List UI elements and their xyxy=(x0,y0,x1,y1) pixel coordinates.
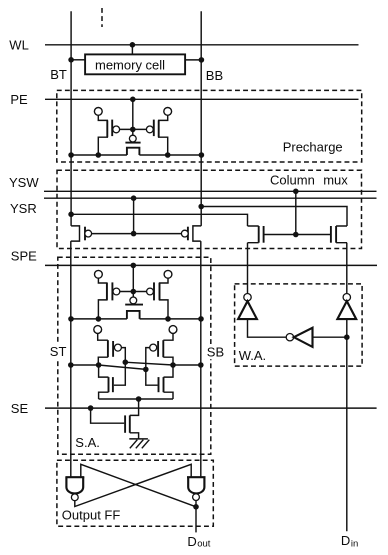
inverter W.A. middle xyxy=(286,328,312,347)
wire node ST segment xyxy=(71,364,99,366)
node PE to precharge gates junction xyxy=(130,97,136,103)
wire precharge rail xyxy=(71,154,201,156)
node SA rail left drain junction xyxy=(96,316,102,322)
power VDD terminal precharge right xyxy=(164,108,172,116)
wire read mux gate line xyxy=(91,233,181,235)
transistor precharge equalize PMOS xyxy=(125,135,140,155)
node SE junction xyxy=(88,405,94,411)
node read mux gate junction xyxy=(131,231,137,237)
transistor SA latch NMOS left xyxy=(99,365,113,399)
wire memory cell right terminal to BB xyxy=(185,59,201,61)
wire memory cell left terminal to BT xyxy=(71,59,85,61)
wire SE gate feed xyxy=(91,408,125,423)
transistor SA precharge PMOS right xyxy=(147,278,168,319)
inverter W.A. right driver xyxy=(337,294,356,320)
power VDD terminal SA latch right xyxy=(169,326,177,334)
wire SA source rail xyxy=(99,398,173,400)
svg-text:Output FF: Output FF xyxy=(62,507,121,522)
transistor SA equalize PMOS xyxy=(125,297,143,319)
svg-text:WL: WL xyxy=(9,37,29,52)
wire YSR gate feed xyxy=(133,198,135,233)
wire node SB segment xyxy=(173,364,201,366)
precharge block dashed box xyxy=(57,90,362,162)
label ST xyxy=(48,344,68,359)
node SA rail BB junction xyxy=(198,316,204,322)
wire write amp right feed xyxy=(346,243,348,294)
wire SA latch right gate vertical xyxy=(146,348,158,386)
svg-text:SE: SE xyxy=(11,401,29,416)
label SE xyxy=(11,401,29,416)
inverter W.A. left driver xyxy=(238,294,257,320)
svg-text:mux: mux xyxy=(323,173,348,188)
transistor write mux NMOS right xyxy=(331,226,347,243)
svg-text:YSR: YSR xyxy=(10,201,37,216)
wire YSW column select write xyxy=(44,190,377,192)
label memory cell xyxy=(95,57,165,72)
power VDD terminal SA precharge right xyxy=(164,270,172,278)
wire cross couple diagonal left gate to right drain xyxy=(125,362,173,365)
wire SA rail xyxy=(71,318,201,320)
gate NAND left xyxy=(65,477,84,500)
wire Dout line xyxy=(195,507,197,533)
label S.A. xyxy=(75,435,100,450)
wire WL word line xyxy=(45,44,359,46)
wire precharge gate feed xyxy=(132,99,134,135)
gate NAND right xyxy=(187,477,206,500)
sense amp dashed box xyxy=(58,257,211,454)
wire BT bit line lower xyxy=(70,241,72,477)
power VDD terminal precharge left xyxy=(94,108,102,116)
wire left NAND output cross to right input xyxy=(75,464,191,506)
wire SPE gate feed xyxy=(132,265,134,297)
svg-text:out: out xyxy=(197,539,211,550)
node SA precharge gate junction xyxy=(131,289,137,295)
svg-text:Column: Column xyxy=(270,173,315,188)
wire write mux gate line xyxy=(264,234,331,236)
svg-text:memory cell: memory cell xyxy=(95,57,165,72)
wire BT bit line upper xyxy=(70,11,72,226)
label YSR xyxy=(10,201,37,216)
output FF dashed box xyxy=(57,460,213,526)
label BT xyxy=(50,67,67,82)
wire SA precharge gate line xyxy=(120,291,147,293)
node ST BT junction xyxy=(68,362,74,368)
column mux dashed box xyxy=(57,170,362,248)
wire BB write branch xyxy=(201,207,347,227)
node BT write branch junction xyxy=(68,212,74,218)
wire YSR column select read xyxy=(44,197,377,199)
wire BB bit line lower xyxy=(200,241,202,477)
svg-text:YSW: YSW xyxy=(9,175,39,190)
label Din xyxy=(341,533,358,549)
label SB xyxy=(205,344,225,359)
transistor precharge PMOS right xyxy=(146,115,167,155)
wire Din line xyxy=(346,319,348,531)
node precharge rail BB junction xyxy=(199,152,205,158)
wire precharge gate line xyxy=(119,128,146,130)
node SA rail BT junction xyxy=(68,316,74,322)
continuation mark bit-line column above xyxy=(101,8,103,27)
wire BB bit line upper xyxy=(200,11,202,226)
node precharge rail BT junction xyxy=(68,152,74,158)
transistor SA precharge PMOS left xyxy=(98,278,119,319)
node BT memory cell junction xyxy=(68,57,74,63)
transistor precharge PMOS left xyxy=(98,115,119,155)
label Output FF xyxy=(62,507,121,522)
wire cross couple diagonal left drain to right gate xyxy=(99,365,146,369)
wire right NAND output stem xyxy=(195,501,197,507)
ground xyxy=(129,439,149,448)
node Din branch junction xyxy=(344,334,350,340)
node write mux gate junction xyxy=(293,232,299,238)
wire SE sense enable xyxy=(45,407,377,409)
node WL to memory cell junction xyxy=(130,42,136,48)
node precharge gate junction xyxy=(130,127,136,133)
wire WL to memory cell xyxy=(131,45,133,55)
node right drain junction xyxy=(170,362,176,368)
label WL xyxy=(9,37,29,52)
svg-text:BT: BT xyxy=(50,67,67,82)
svg-text:PE: PE xyxy=(10,92,28,107)
node right gate junction xyxy=(143,367,149,373)
svg-text:S.A.: S.A. xyxy=(75,435,100,450)
transistor SA tail NMOS xyxy=(125,399,139,439)
wire PE precharge enable xyxy=(45,98,359,100)
write amp dashed box xyxy=(235,284,363,366)
svg-text:D: D xyxy=(187,534,196,549)
transistor SA latch PMOS left xyxy=(98,333,122,365)
node SB BB junction xyxy=(198,362,204,368)
node SPE junction xyxy=(131,263,137,269)
wire SPE sense precharge enable xyxy=(45,264,377,266)
label SPE xyxy=(11,248,37,263)
svg-text:SPE: SPE xyxy=(11,248,37,263)
label YSW xyxy=(9,175,39,190)
node YSR junction xyxy=(131,195,137,201)
transistor SA latch PMOS right xyxy=(150,333,173,365)
label BB xyxy=(206,68,223,83)
wire SA latch left gate vertical xyxy=(114,348,125,386)
node SA tail junction xyxy=(136,396,142,402)
power VDD terminal SA latch left xyxy=(94,326,102,334)
node BB memory cell junction xyxy=(199,57,205,63)
transistor write mux NMOS left xyxy=(248,226,264,243)
transistor read mux PMOS left on BT xyxy=(71,226,92,241)
node left gate junction xyxy=(123,359,129,365)
label PE xyxy=(10,92,28,107)
transistor read mux PMOS right on BB xyxy=(181,226,201,241)
node left drain junction xyxy=(96,362,102,368)
svg-text:Precharge: Precharge xyxy=(283,140,343,155)
power VDD terminal SA precharge left xyxy=(95,270,103,278)
node precharge rail right drain junction xyxy=(165,152,171,158)
svg-text:in: in xyxy=(351,538,358,549)
svg-text:SB: SB xyxy=(207,344,224,359)
node right NAND output junction xyxy=(193,504,199,510)
svg-text:D: D xyxy=(341,533,350,548)
label Dout xyxy=(187,534,210,550)
label Precharge xyxy=(283,140,343,155)
node YSW junction xyxy=(293,189,299,195)
memory cell xyxy=(85,54,185,74)
wire YSW gate feed xyxy=(295,191,297,234)
node BB write branch junction xyxy=(198,204,204,210)
node SA rail right drain junction xyxy=(165,316,171,322)
wire middle inverter input xyxy=(313,336,347,338)
transistor SA latch NMOS right xyxy=(159,365,174,399)
label mux xyxy=(323,173,348,188)
wire right NAND output cross to left input xyxy=(81,464,196,507)
wire left driver input stem xyxy=(248,319,287,337)
label W.A. xyxy=(239,348,266,363)
label Column xyxy=(270,173,315,188)
svg-text:BB: BB xyxy=(206,68,223,83)
wire BT write branch xyxy=(71,214,247,226)
svg-text:ST: ST xyxy=(50,344,67,359)
svg-text:W.A.: W.A. xyxy=(239,348,266,363)
node precharge rail left drain junction xyxy=(96,152,102,158)
wire write amp left feed xyxy=(247,243,249,294)
